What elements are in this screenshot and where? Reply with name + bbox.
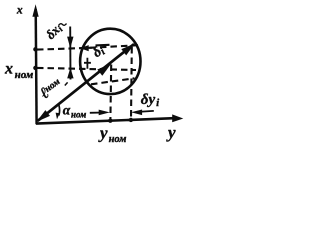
y axis shaft [36, 118, 177, 124]
junction dot x_nom on x axis [33, 66, 37, 70]
svg-text:α: α [63, 102, 71, 117]
svg-text:у: у [98, 123, 108, 142]
label delta_i inside circle [90, 43, 107, 62]
arrowhead left on line A [80, 45, 89, 51]
svg-text:ном: ном [109, 134, 127, 145]
delta-y left arrowhead pointing left [131, 110, 142, 116]
delta-x down arrowhead [67, 37, 73, 49]
diagonal arrowhead delta_i tip [121, 44, 135, 56]
y axis arrowhead [172, 114, 183, 122]
svg-text:ном: ном [15, 69, 34, 81]
angle arrowhead [56, 113, 60, 120]
dashed vertical V2 (y_nom + dy) [130, 47, 133, 119]
angle arc arrow alpha [58, 105, 61, 116]
label delta-x_i [43, 20, 65, 42]
delta-y dimension line right [136, 111, 154, 112]
tilde over delta-x label [59, 24, 67, 26]
tail of arrow on line A [81, 47, 93, 49]
dashed line A (x_nom + dx level) [37, 45, 138, 49]
junction dot y_nom+dy on y axis [129, 118, 133, 122]
x axis arrowhead [32, 4, 38, 17]
tick after l_nom [65, 82, 68, 85]
x axis shaft [34, 9, 37, 124]
overbar dash of line A above delta_i [96, 44, 110, 47]
junction dot y_nom on y axis [108, 119, 112, 123]
svg-text:ном: ном [71, 109, 86, 119]
svg-text:x: x [4, 61, 13, 78]
dashed line B (x_nom level) [37, 68, 136, 70]
svg-text:у: у [166, 123, 176, 142]
diagonal arrowhead at circle center [97, 63, 111, 75]
delta-x up arrowhead [67, 68, 73, 79]
delta-y dimension line left [90, 112, 104, 114]
delta-y right arrowhead pointing right [99, 110, 110, 116]
diagonal radius line l_nom [38, 44, 134, 121]
diagonal arrowhead at origin [36, 110, 50, 122]
label l_nom [36, 75, 65, 103]
small cross marker [84, 58, 91, 69]
junction dot x_nom+dx on x axis [33, 47, 37, 51]
delta-x dimension line [69, 27, 71, 80]
dashed vertical V1 (y_nom) [109, 65, 112, 120]
dashed line C (below center) [91, 78, 135, 84]
tolerance circle [80, 29, 140, 94]
svg-text:x: x [16, 4, 23, 16]
